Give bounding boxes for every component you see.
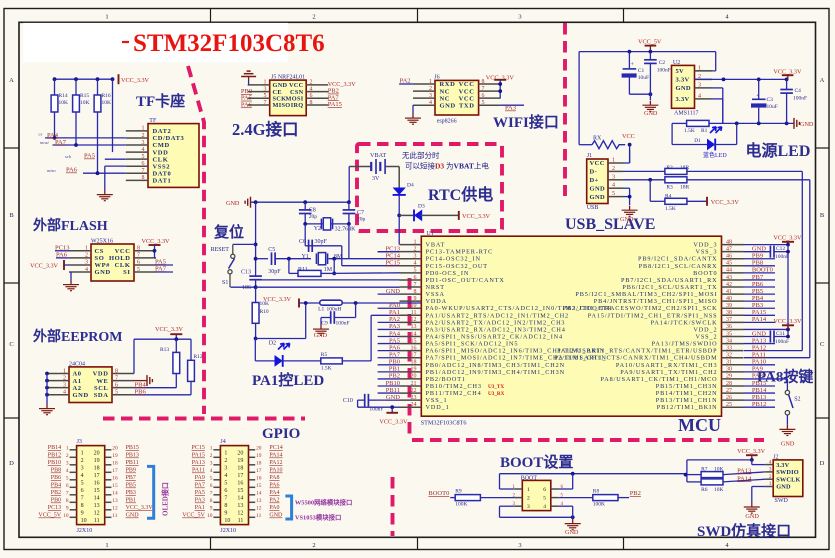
svg-text:3: 3	[414, 254, 417, 260]
svg-text:GND: GND	[781, 441, 795, 448]
svg-text:3: 3	[66, 460, 69, 466]
svg-text:PB8/I2C1_SCL/CANRX: PB8/I2C1_SCL/CANRX	[639, 263, 718, 270]
svg-text:6: 6	[310, 93, 313, 99]
svg-text:GND: GND	[95, 269, 111, 276]
svg-text:GND: GND	[73, 392, 89, 399]
svg-text:6: 6	[414, 275, 417, 281]
svg-text:WIFI接口: WIFI接口	[493, 113, 559, 131]
svg-text:20p: 20p	[309, 214, 318, 220]
svg-text:PA5: PA5	[195, 490, 205, 496]
svg-text:PB5: PB5	[126, 483, 136, 489]
svg-text:4: 4	[543, 504, 546, 510]
svg-text:VCC_3.3V: VCC_3.3V	[155, 326, 184, 333]
svg-text:PB4: PB4	[135, 381, 147, 388]
svg-text:R14: R14	[59, 93, 68, 99]
svg-text:18R: 18R	[680, 165, 690, 171]
svg-text:R10: R10	[260, 309, 269, 315]
svg-text:7: 7	[264, 100, 267, 106]
svg-text:20: 20	[256, 445, 262, 451]
svg-text:电源LED: 电源LED	[746, 141, 811, 160]
svg-text:VCC_5V: VCC_5V	[38, 513, 61, 519]
svg-text:5V: 5V	[676, 68, 685, 75]
svg-text:PB6: PB6	[51, 475, 61, 481]
svg-text:19: 19	[112, 453, 118, 459]
svg-text:PA10/USART1_RX/TIM1_CH3: PA10/USART1_RX/TIM1_CH3	[616, 362, 718, 369]
svg-text:4: 4	[63, 390, 66, 396]
svg-text:2: 2	[81, 458, 84, 464]
svg-text:1: 1	[105, 13, 108, 20]
svg-text:R2: R2	[666, 165, 673, 171]
svg-text:D+: D+	[590, 177, 599, 184]
svg-text:HOLD: HOLD	[109, 255, 131, 262]
svg-text:11: 11	[256, 513, 261, 519]
svg-text:VCC_3.3V: VCC_3.3V	[773, 318, 802, 325]
svg-text:B: B	[9, 212, 14, 219]
svg-text:RTC供电: RTC供电	[428, 185, 493, 204]
svg-text:4: 4	[66, 468, 69, 474]
svg-text:MISO: MISO	[273, 102, 291, 109]
svg-text:VCC_3.3V: VCC_3.3V	[462, 213, 491, 220]
svg-text:10: 10	[63, 513, 69, 519]
svg-text:18: 18	[237, 466, 243, 472]
svg-text:GPIO: GPIO	[262, 426, 300, 442]
svg-text:STM32F103C8T6: STM32F103C8T6	[421, 419, 467, 426]
svg-text:GND: GND	[620, 216, 634, 223]
svg-text:6: 6	[142, 161, 145, 167]
svg-text:SO: SO	[95, 255, 105, 262]
svg-text:20: 20	[94, 451, 100, 457]
svg-text:D: D	[9, 460, 14, 467]
svg-text:PA5: PA5	[84, 153, 95, 160]
svg-text:无此部分时: 无此部分时	[402, 150, 440, 160]
svg-text:2: 2	[142, 133, 145, 139]
svg-text:VDD_3: VDD_3	[693, 242, 717, 249]
svg-text:15: 15	[94, 488, 100, 494]
svg-text:16: 16	[411, 345, 417, 351]
svg-text:PA4/SPI1_NSS/USART2_CK/ADC12_I: PA4/SPI1_NSS/USART2_CK/ADC12_IN4	[426, 334, 564, 341]
svg-text:GND: GND	[644, 110, 658, 117]
svg-text:RX: RX	[593, 135, 602, 141]
svg-text:24C04: 24C04	[69, 361, 85, 367]
svg-text:NRST: NRST	[426, 284, 445, 291]
svg-text:蓝色LED: 蓝色LED	[703, 151, 727, 159]
svg-text:VBAT: VBAT	[370, 152, 386, 159]
svg-text:W25X16: W25X16	[91, 239, 113, 245]
svg-text:D2: D2	[269, 341, 276, 347]
svg-text:1: 1	[224, 451, 227, 457]
svg-text:6: 6	[115, 382, 118, 388]
svg-text:PA8按键: PA8按键	[757, 368, 813, 386]
svg-text:7: 7	[66, 490, 69, 496]
svg-text:BOOT: BOOT	[521, 475, 538, 481]
svg-text:2: 2	[224, 458, 227, 464]
svg-text:45: 45	[726, 261, 732, 267]
svg-text:PB15/TIM1_CH3N: PB15/TIM1_CH3N	[656, 383, 718, 390]
svg-text:C3: C3	[767, 97, 774, 103]
svg-text:R9: R9	[455, 488, 462, 494]
svg-text:PB14/TIM1_CH2N: PB14/TIM1_CH2N	[656, 390, 718, 397]
svg-text:可以短接D3 为VBAT上电: 可以短接D3 为VBAT上电	[405, 161, 489, 171]
svg-text:29: 29	[726, 374, 732, 380]
svg-text:PB14: PB14	[48, 445, 61, 451]
svg-text:100nF: 100nF	[793, 96, 807, 102]
svg-text:12: 12	[411, 317, 417, 323]
svg-text:PC14: PC14	[269, 445, 282, 451]
svg-text:VCC: VCC	[459, 95, 475, 102]
svg-text:17: 17	[112, 468, 118, 474]
svg-text:PA1: PA1	[195, 505, 205, 511]
svg-text:16: 16	[256, 475, 262, 481]
svg-text:外部EEPROM: 外部EEPROM	[33, 328, 122, 345]
svg-text:VSSA: VSSA	[426, 291, 445, 298]
svg-text:PA6: PA6	[66, 167, 78, 174]
svg-text:4: 4	[769, 459, 772, 465]
svg-text:PB11: PB11	[126, 460, 139, 466]
svg-text:48: 48	[726, 239, 732, 245]
svg-text:4: 4	[414, 261, 417, 267]
svg-text:J2: J2	[773, 454, 778, 460]
svg-text:PB2: PB2	[630, 490, 641, 497]
svg-text:PD1-OSC_OUT/CANTX: PD1-OSC_OUT/CANTX	[426, 277, 505, 284]
svg-text:A: A	[9, 77, 14, 84]
svg-text:Y2: Y2	[314, 226, 321, 232]
svg-text:20: 20	[112, 445, 118, 451]
svg-text:3.3V: 3.3V	[676, 77, 690, 84]
svg-text:3: 3	[81, 466, 84, 472]
svg-text:10K: 10K	[714, 487, 724, 493]
svg-text:D4: D4	[407, 183, 414, 189]
svg-text:PA14: PA14	[269, 453, 282, 459]
svg-text:MCU: MCU	[678, 415, 721, 435]
svg-text:4: 4	[429, 100, 432, 106]
svg-text:3: 3	[63, 382, 66, 388]
svg-text:7: 7	[142, 168, 145, 174]
svg-text:6: 6	[482, 93, 485, 99]
svg-text:10K: 10K	[102, 100, 112, 106]
svg-text:15: 15	[256, 483, 262, 489]
svg-text:VSS2: VSS2	[153, 163, 171, 170]
svg-text:C5: C5	[268, 247, 275, 253]
svg-text:VDD: VDD	[93, 371, 109, 378]
svg-text:GND: GND	[269, 513, 283, 519]
svg-text:3V: 3V	[372, 176, 380, 182]
svg-text:8: 8	[310, 100, 313, 106]
svg-text:PC15: PC15	[386, 260, 400, 267]
svg-text:40: 40	[726, 296, 732, 302]
svg-text:3: 3	[224, 466, 227, 472]
svg-text:PC15-OSC32_OUT: PC15-OSC32_OUT	[426, 263, 488, 270]
svg-text:VCC_3.3V: VCC_3.3V	[30, 262, 59, 269]
svg-text:100K: 100K	[593, 502, 605, 508]
svg-text:11: 11	[238, 518, 244, 524]
svg-text:5: 5	[115, 390, 118, 396]
svg-text:10uF: 10uF	[767, 104, 778, 110]
svg-text:23: 23	[411, 395, 417, 401]
svg-text:VCC_3.3V: VCC_3.3V	[263, 296, 292, 303]
svg-text:C10: C10	[343, 398, 353, 404]
svg-text:5: 5	[543, 496, 546, 502]
svg-text:100nF: 100nF	[336, 320, 350, 326]
svg-text:SWD仿真接口: SWD仿真接口	[697, 522, 791, 540]
svg-text:RXD: RXD	[440, 81, 456, 88]
svg-text:15: 15	[237, 488, 243, 494]
svg-text:27: 27	[726, 388, 732, 394]
svg-text:7: 7	[210, 490, 213, 496]
svg-text:1: 1	[63, 368, 66, 374]
svg-text:PB4/JNTRST/TIM3_CH1/SPI1_MISO: PB4/JNTRST/TIM3_CH1/SPI1_MISO	[594, 298, 718, 305]
svg-text:10: 10	[411, 303, 417, 309]
svg-text:20p: 20p	[357, 217, 366, 223]
svg-text:GND: GND	[590, 194, 606, 201]
svg-text:2: 2	[63, 375, 66, 381]
svg-text:PB12/TIM1_BKIN: PB12/TIM1_BKIN	[657, 404, 718, 411]
svg-text:DAT1: DAT1	[153, 178, 172, 185]
svg-text:VSS_2: VSS_2	[695, 334, 717, 341]
svg-text:5: 5	[137, 267, 140, 273]
svg-text:PA11: PA11	[752, 352, 766, 359]
svg-text:6: 6	[543, 487, 546, 493]
svg-text:PB10: PB10	[48, 460, 61, 466]
svg-text:1.5K: 1.5K	[321, 366, 332, 372]
svg-text:14: 14	[112, 490, 118, 496]
svg-text:30pF: 30pF	[268, 269, 281, 275]
svg-text:SDA: SDA	[94, 392, 109, 399]
svg-text:6: 6	[210, 483, 213, 489]
svg-text:D: D	[820, 460, 825, 467]
svg-text:PB8: PB8	[51, 468, 61, 474]
svg-text:GND: GND	[565, 529, 579, 536]
svg-text:9: 9	[81, 511, 84, 517]
svg-text:C13: C13	[241, 270, 251, 276]
svg-text:esp8266: esp8266	[437, 118, 457, 124]
svg-text:U1: U1	[426, 231, 433, 237]
svg-text:R4: R4	[665, 193, 672, 199]
svg-text:4: 4	[142, 147, 145, 153]
svg-text:C: C	[820, 341, 824, 348]
svg-text:NC: NC	[440, 95, 451, 102]
svg-text:2: 2	[310, 80, 313, 86]
svg-text:PC15: PC15	[192, 445, 205, 451]
svg-text:OLED接口: OLED接口	[161, 482, 170, 516]
svg-text:2: 2	[769, 474, 772, 480]
svg-text:8: 8	[482, 79, 485, 85]
svg-text:PA10: PA10	[269, 468, 282, 474]
svg-text:mosi: mosi	[40, 140, 49, 145]
svg-text:11: 11	[94, 518, 100, 524]
svg-text:U2: U2	[673, 60, 680, 66]
svg-text:46: 46	[726, 254, 732, 260]
svg-text:GND: GND	[226, 200, 240, 207]
svg-text:1: 1	[429, 79, 432, 85]
svg-text:PA8/USART1_CK/TIM1_CH1/MCO: PA8/USART1_CK/TIM1_CH1/MCO	[600, 376, 717, 383]
svg-text:PA14/JTCK/SWCLK: PA14/JTCK/SWCLK	[651, 319, 718, 326]
svg-text:32: 32	[726, 353, 732, 359]
svg-text:5: 5	[142, 154, 145, 160]
svg-text:RESET: RESET	[211, 247, 230, 253]
svg-text:PB12: PB12	[48, 453, 61, 459]
svg-text:TF卡座: TF卡座	[136, 92, 185, 110]
svg-text:20: 20	[237, 451, 243, 457]
svg-text:SI: SI	[123, 269, 130, 276]
svg-text:38: 38	[726, 310, 732, 316]
svg-text:PA0: PA0	[269, 505, 279, 511]
svg-text:2: 2	[85, 253, 88, 259]
svg-text:5: 5	[81, 481, 84, 487]
svg-text:PC14: PC14	[386, 253, 401, 260]
svg-text:R6: R6	[701, 487, 708, 493]
svg-text:28: 28	[726, 381, 732, 387]
svg-text:106: 106	[242, 285, 251, 291]
svg-text:18: 18	[94, 466, 100, 472]
svg-text:B: B	[820, 212, 825, 219]
svg-text:VCC: VCC	[622, 133, 635, 140]
svg-text:13: 13	[411, 324, 417, 330]
svg-text:U3_RX: U3_RX	[488, 391, 505, 397]
svg-text:10K: 10K	[59, 100, 69, 106]
svg-text:10: 10	[81, 518, 87, 524]
svg-text:8: 8	[414, 289, 417, 295]
svg-text:7: 7	[137, 253, 140, 259]
svg-text:PA1控LED: PA1控LED	[252, 371, 324, 389]
svg-text:100nF: 100nF	[775, 254, 789, 260]
svg-text:18: 18	[256, 460, 262, 466]
svg-text:2: 2	[612, 166, 615, 172]
svg-text:VCC_3.3V: VCC_3.3V	[142, 238, 171, 245]
svg-text:GND: GND	[800, 121, 814, 128]
svg-text:PB7: PB7	[126, 475, 136, 481]
svg-text:PA12/USART1_RTS/CANTX/TIM1_ETR: PA12/USART1_RTS/CANTX/TIM1_ETR/USBDP	[557, 348, 717, 355]
svg-text:4: 4	[210, 468, 213, 474]
svg-text:VCC: VCC	[115, 248, 131, 255]
svg-text:TF: TF	[149, 118, 157, 124]
svg-text:VCC: VCC	[459, 81, 475, 88]
svg-text:PB9: PB9	[126, 468, 136, 474]
svg-text:USB: USB	[587, 205, 599, 211]
svg-text:11: 11	[411, 310, 417, 316]
svg-text:J4: J4	[220, 439, 225, 445]
svg-text:1.5K: 1.5K	[665, 206, 676, 212]
svg-text:DAT2: DAT2	[153, 128, 172, 135]
svg-text:1: 1	[142, 126, 145, 132]
svg-text:PB2: PB2	[51, 490, 61, 496]
svg-text:1: 1	[85, 246, 88, 252]
svg-text:PA3: PA3	[195, 498, 205, 504]
svg-text:42: 42	[726, 282, 732, 288]
svg-text:3: 3	[210, 460, 213, 466]
svg-text:CMD: CMD	[153, 142, 170, 149]
svg-text:GND: GND	[776, 484, 791, 491]
svg-text:17: 17	[411, 353, 417, 359]
svg-text:PC13-TAMPER-RTC: PC13-TAMPER-RTC	[426, 249, 494, 256]
svg-text:7: 7	[224, 496, 227, 502]
svg-text:VCC_3.3V: VCC_3.3V	[121, 77, 150, 84]
svg-text:NC: NC	[440, 88, 451, 95]
svg-text:PA4: PA4	[269, 490, 279, 496]
svg-text:PA13: PA13	[192, 460, 205, 466]
svg-text:11: 11	[112, 513, 117, 519]
svg-text:2.4G接口: 2.4G接口	[232, 119, 298, 139]
svg-text:VCC_3.3V: VCC_3.3V	[126, 505, 154, 511]
svg-text:2: 2	[414, 246, 417, 252]
svg-text:VSS_3: VSS_3	[695, 249, 717, 256]
svg-text:7: 7	[115, 375, 118, 381]
svg-text:PB9/I2C1_SDA/CANTX: PB9/I2C1_SDA/CANTX	[638, 256, 717, 263]
svg-text:IRQ: IRQ	[291, 102, 304, 109]
svg-text:VDD: VDD	[153, 149, 169, 156]
svg-text:19: 19	[237, 458, 243, 464]
svg-text:9: 9	[414, 296, 417, 302]
svg-text:13: 13	[237, 503, 243, 509]
svg-text:12: 12	[256, 505, 262, 511]
svg-text:WP#: WP#	[95, 262, 111, 269]
svg-text:3.3V: 3.3V	[776, 462, 789, 469]
svg-text:VCC_3.3V: VCC_3.3V	[773, 235, 802, 242]
svg-text:1: 1	[81, 451, 84, 457]
svg-text:PA3/USART2_RX/ADC12_IN3/TIM2_C: PA3/USART2_RX/ADC12_IN3/TIM2_CH4	[426, 326, 566, 333]
svg-text:C8: C8	[309, 208, 316, 214]
svg-text:C9: C9	[321, 320, 328, 326]
svg-text:PB6/I2C1_SCL/USART1_TX: PB6/I2C1_SCL/USART1_TX	[622, 284, 717, 291]
svg-text:Y1: Y1	[302, 254, 309, 260]
svg-text:PA9: PA9	[195, 475, 205, 481]
svg-text:17: 17	[237, 473, 243, 479]
svg-text:J5 NRF24L01: J5 NRF24L01	[271, 75, 305, 81]
svg-text:PB3: PB3	[126, 490, 136, 496]
svg-text:A0: A0	[73, 371, 82, 378]
svg-text:C6: C6	[299, 239, 306, 245]
svg-text:PA2: PA2	[269, 498, 279, 504]
svg-text:C1: C1	[638, 68, 645, 74]
svg-text:PA9/USART1_TX/TIM1_CH2: PA9/USART1_TX/TIM1_CH2	[620, 369, 717, 376]
svg-text:PA7: PA7	[55, 139, 67, 146]
svg-text:PB4: PB4	[51, 483, 61, 489]
svg-text:3: 3	[85, 260, 88, 266]
svg-text:14: 14	[411, 331, 417, 337]
svg-text:3: 3	[518, 13, 521, 20]
svg-text:miso: miso	[47, 168, 56, 173]
svg-text:+: +	[756, 93, 759, 99]
svg-text:SWD: SWD	[775, 498, 789, 504]
svg-text:C2: C2	[659, 60, 666, 66]
svg-text:PB11/TIM2_CH4: PB11/TIM2_CH4	[426, 390, 482, 397]
svg-text:C11: C11	[776, 331, 785, 337]
svg-text:PA2/USART2_TX/ADC12_IN2/TIM2_C: PA2/USART2_TX/ADC12_IN2/TIM2_CH3	[426, 319, 566, 326]
svg-text:5: 5	[482, 100, 485, 106]
svg-text:2: 2	[527, 496, 530, 502]
svg-text:1: 1	[264, 80, 267, 86]
svg-text:GND: GND	[745, 513, 759, 520]
svg-text:1: 1	[210, 445, 213, 451]
svg-text:GND: GND	[590, 185, 606, 192]
svg-text:SCL: SCL	[94, 385, 109, 392]
svg-text:1: 1	[698, 65, 701, 71]
svg-text:10K: 10K	[80, 100, 90, 106]
svg-text:8: 8	[66, 498, 69, 504]
svg-text:19: 19	[256, 453, 262, 459]
svg-text:10: 10	[224, 518, 230, 524]
svg-text:1M: 1M	[324, 267, 333, 273]
svg-text:14: 14	[256, 490, 262, 496]
svg-text:PA13/JTMS/SWDIO: PA13/JTMS/SWDIO	[652, 341, 718, 348]
svg-text:GND: GND	[314, 332, 328, 339]
svg-text:PB0/ADC12_IN8/TIM3_CH3/TIM1_CH: PB0/ADC12_IN8/TIM3_CH3/TIM1_CH2N	[426, 362, 566, 369]
svg-text:7: 7	[81, 496, 84, 502]
svg-text:PB10/TIM2_CH3: PB10/TIM2_CH3	[426, 383, 482, 390]
svg-text:GND: GND	[126, 513, 140, 519]
svg-text:PA15/JTDI/TIM2_CH1_ETR/SPI1_NS: PA15/JTDI/TIM2_CH1_ETR/SPI1_NSS	[588, 312, 718, 319]
svg-text:16: 16	[237, 481, 243, 487]
svg-text:18R: 18R	[680, 185, 690, 191]
